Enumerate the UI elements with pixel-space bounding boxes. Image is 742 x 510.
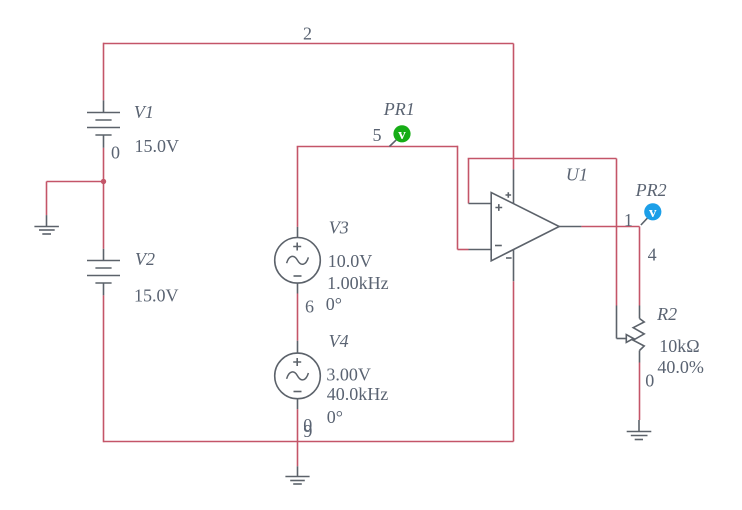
svg-text:10.0V: 10.0V — [328, 251, 373, 271]
svg-text:1.00kHz: 1.00kHz — [327, 273, 389, 293]
svg-text:4: 4 — [648, 245, 657, 265]
svg-text:PR2: PR2 — [635, 180, 667, 200]
svg-text:V1: V1 — [134, 102, 154, 122]
svg-text:1: 1 — [624, 210, 633, 230]
svg-text:9: 9 — [303, 421, 312, 441]
svg-text:0°: 0° — [327, 407, 343, 427]
svg-text:0°: 0° — [326, 294, 342, 314]
svg-text:15.0V: 15.0V — [135, 136, 180, 156]
svg-text:V3: V3 — [329, 217, 349, 237]
svg-text:10kΩ: 10kΩ — [659, 336, 699, 356]
svg-text:40.0%: 40.0% — [657, 357, 704, 377]
svg-text:15.0V: 15.0V — [134, 286, 179, 306]
svg-text:v: v — [649, 205, 657, 221]
svg-text:v: v — [398, 127, 406, 143]
svg-text:6: 6 — [305, 296, 314, 316]
svg-text:3.00V: 3.00V — [326, 365, 371, 385]
svg-text:U1: U1 — [566, 164, 588, 184]
svg-text:V4: V4 — [329, 331, 349, 351]
svg-text:R2: R2 — [656, 304, 677, 324]
svg-text:40.0kHz: 40.0kHz — [327, 384, 389, 404]
svg-text:PR1: PR1 — [383, 99, 415, 119]
svg-text:V2: V2 — [135, 249, 155, 269]
svg-text:0: 0 — [111, 143, 120, 163]
svg-text:5: 5 — [373, 125, 382, 145]
svg-text:0: 0 — [645, 371, 654, 391]
svg-text:2: 2 — [303, 24, 312, 44]
